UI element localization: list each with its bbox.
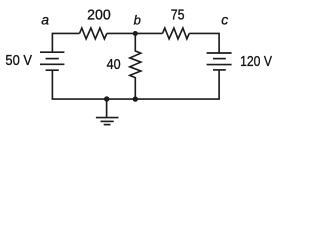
resistor R1 200: [80, 28, 107, 39]
wire node c corner (top wire to 120V battery top): [189, 33, 219, 53]
junction dot ground node: [104, 96, 109, 101]
ground stem: [106, 99, 108, 117]
battery V1 50 V plate 4 short: [46, 69, 59, 71]
battery V2 120 V plate 4 short: [213, 69, 226, 71]
svg-text:200: 200: [87, 8, 111, 24]
wire node a corner (top wire to 50V battery top): [52, 33, 79, 52]
svg-text:a: a: [41, 12, 49, 28]
svg-text:40: 40: [107, 57, 121, 73]
junction dot resistor 40 bottom: [133, 96, 138, 101]
wire resistor 200 to node b: [107, 32, 136, 34]
svg-text:c: c: [221, 11, 228, 27]
battery V1 50 V plate 2 short: [46, 58, 59, 60]
battery V1 50 V plate 1 long: [40, 51, 64, 53]
wire node b to resistor 75: [135, 32, 162, 34]
ground bar 3: [104, 124, 111, 126]
battery V2 120 V plate 1 long: [207, 52, 232, 54]
ground bar 1: [96, 117, 119, 119]
resistor R2 75: [163, 28, 190, 39]
svg-text:b: b: [134, 13, 141, 28]
battery V2 120 V plate 2 short: [213, 58, 226, 60]
wire bottom rail with battery stubs: [52, 70, 219, 99]
resistor R3 40 vertical with wires from node b to bottom rail: [130, 33, 141, 99]
ground bar 2: [101, 120, 114, 122]
battery V1 50 V plate 3 long: [40, 63, 64, 65]
svg-text:50 V: 50 V: [5, 53, 32, 69]
battery V2 120 V plate 3 long: [207, 64, 232, 66]
svg-text:75: 75: [171, 7, 185, 23]
svg-text:120 V: 120 V: [240, 54, 272, 70]
junction dot node b: [133, 31, 138, 36]
